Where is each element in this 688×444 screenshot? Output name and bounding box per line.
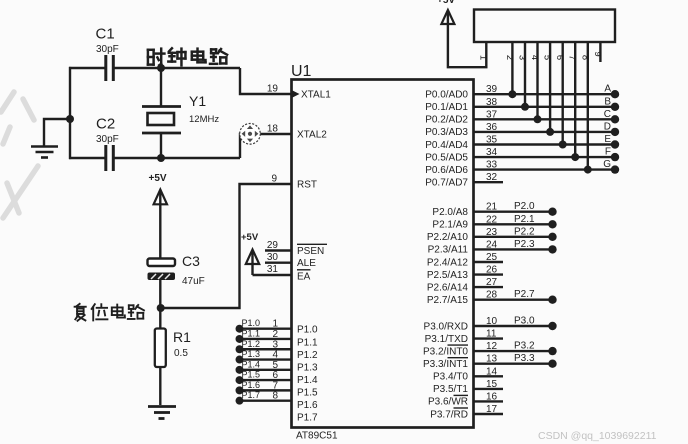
junction: RP1 pin 3 / P0.1 [521,103,529,111]
svg-text:37: 37 [486,109,498,120]
svg-text:34: 34 [486,147,498,158]
svg-text:F: F [605,147,611,158]
pin 27 stub [474,277,503,288]
node P2.1 [514,214,557,229]
junction: reset node [157,304,165,312]
junction: RP1 pin 6 / P0.4 [559,141,567,149]
svg-text:12MHz: 12MHz [189,114,219,125]
svg-text:9: 9 [271,174,277,185]
svg-text:P1.1: P1.1 [242,328,261,338]
svg-text:8: 8 [272,391,278,402]
pin 17 stub [474,404,503,415]
node C [604,109,619,124]
junction: RP1 pin 2 / P0.0 [508,90,516,98]
svg-text:22: 22 [486,214,498,225]
svg-text:13: 13 [486,354,498,365]
node G [603,159,619,174]
svg-text:17: 17 [486,404,498,415]
pin 39 P0.0/AD0 wire to node A [474,84,616,95]
svg-text:P3.0: P3.0 [514,316,535,327]
svg-text:32: 32 [486,172,498,183]
RP1 pin 6 column [554,42,565,145]
svg-text:P1.7: P1.7 [297,413,318,424]
resistor R1 [155,308,166,405]
wire: top clock rail [69,67,240,69]
pin 32 P0.7/AD7 stub [474,172,503,183]
RP1 pin 7 column [567,42,578,157]
pin 36 P0.3/AD3 wire to node D [474,122,616,133]
svg-text:CSDN @qq_1039692211: CSDN @qq_1039692211 [538,430,657,442]
pin stub 30 ALE [265,262,291,264]
label 时钟电路 (clock circuit title) [148,48,227,65]
svg-text:C3: C3 [182,253,200,269]
RP1 pin 8 column [579,42,590,170]
svg-text:19: 19 [267,84,279,95]
junction: bottom rail / Y1 [157,154,165,162]
pin 3 P1.2 external wire [236,339,292,354]
svg-text:P1.5: P1.5 [297,388,318,399]
pin 16 stub [474,391,503,402]
svg-text:P1.6: P1.6 [297,400,318,411]
junction: RP1 pin 7 / P0.5 [571,153,579,161]
wire: +5V to EA pin 31 [253,274,292,276]
svg-text:P1.2: P1.2 [297,350,318,361]
node P2.2 [514,226,557,241]
pin 28 wire to net P2.7 [474,290,553,301]
svg-text:5: 5 [542,55,553,60]
node P2.0 [514,201,557,216]
svg-text:P3.2/INT0: P3.2/INT0 [423,346,468,357]
wire: XTAL1 branch [240,68,291,94]
svg-text:P2.2/A10: P2.2/A10 [427,232,469,243]
svg-text:ALE: ALE [297,258,316,269]
capacitor C3 (electrolytic) [148,259,176,309]
svg-text:P3.5/T1: P3.5/T1 [433,384,468,395]
pin 4 P1.3 external wire [236,349,292,364]
node A [604,84,619,99]
RP1 pin 4 column [529,42,540,119]
pin 33 P0.6/AD6 wire to node G [474,160,616,171]
pin 10 wire to net P3.0 [474,316,553,327]
svg-text:11: 11 [486,329,497,340]
svg-text:RST: RST [297,179,317,190]
junction: RP1 pin 4 / P0.2 [534,115,542,123]
pin 22 wire to net P2.1 [474,214,553,225]
svg-text:8: 8 [579,55,590,60]
pin 25 stub [474,252,503,263]
node P2.3 [514,239,557,254]
svg-text:4: 4 [529,55,540,60]
junction: RP1 pin 8 / P0.6 [584,166,592,174]
node F [605,147,619,162]
RP1 pin 1 lead to +5V [448,12,486,67]
svg-text:P2.0: P2.0 [514,201,535,212]
svg-text:P2.6/A14: P2.6/A14 [427,282,469,293]
svg-text:A: A [604,84,611,95]
node B [604,96,619,111]
pin label P3.2/INT0 [423,345,468,357]
svg-text:P3.4/T0: P3.4/T0 [433,372,468,383]
capacitor C1 [106,55,114,81]
pin 34 P0.5/AD5 wire to node F [474,147,616,158]
junction: left rail / ground [66,115,74,123]
svg-text:P2.7: P2.7 [514,289,535,300]
pin 13 wire to net P3.3 [474,354,553,365]
svg-text:23: 23 [486,227,498,238]
wire: reset node to RST pin 9 [161,184,291,308]
svg-text:26: 26 [486,265,498,276]
pin label EA (overline) [297,270,311,283]
svg-text:+5V: +5V [437,0,455,6]
node P2.7 [514,289,557,304]
svg-text:P0.0/AD0: P0.0/AD0 [425,90,468,101]
pin label P3.7/RD [430,408,468,420]
pin 7 P1.6 external wire [236,380,292,395]
svg-text:24: 24 [486,239,498,250]
svg-text:9: 9 [592,51,603,56]
svg-text:EA: EA [297,272,311,283]
pin 2 P1.1 external wire [236,328,292,343]
svg-text:P3.0/RXD: P3.0/RXD [424,321,468,332]
svg-text:29: 29 [267,240,279,251]
watermark: faint diagonal strokes [1,92,38,218]
node P3.3 [514,353,557,368]
pin 37 P0.2/AD2 wire to node C [474,109,616,120]
node P3.2 [514,341,557,356]
pin 12 wire to net P3.2 [474,341,553,352]
svg-text:25: 25 [486,252,498,263]
svg-text:P1.3: P1.3 [297,362,318,373]
svg-text:30: 30 [267,252,279,263]
IC U1 AT89C51 body [292,80,474,428]
svg-text:C: C [604,109,611,120]
pin 15 stub [474,379,503,390]
svg-text:P0.4/AD4: P0.4/AD4 [425,140,468,151]
svg-text:27: 27 [486,277,498,288]
svg-text:P0.2/AD2: P0.2/AD2 [425,115,468,126]
svg-text:P2.4/A12: P2.4/A12 [427,257,469,268]
resistor network RP1 body [474,10,615,43]
svg-text:1: 1 [478,55,489,60]
svg-text:10: 10 [486,316,498,327]
pin 26 stub [474,265,503,276]
RP1 pin 3 column [517,42,528,107]
svg-text:P1.7: P1.7 [242,390,261,400]
svg-text:14: 14 [486,366,498,377]
svg-text:P1.0: P1.0 [297,325,318,336]
wire: ground branch (clock) [44,119,70,146]
pin 38 P0.1/AD1 wire to node B [474,97,616,108]
capacitor C2 [106,145,114,171]
svg-text:Y1: Y1 [189,93,206,109]
svg-text:P2.7/A15: P2.7/A15 [427,295,469,306]
svg-text:P1.1: P1.1 [297,337,318,348]
svg-text:0.5: 0.5 [174,348,188,359]
svg-text:XTAL2: XTAL2 [297,129,327,140]
svg-text:PSEN: PSEN [297,246,324,257]
pin label PSEN (overline) [297,244,327,257]
svg-text:7: 7 [567,55,578,60]
pin 24 wire to net P2.3 [474,239,553,250]
svg-text:39: 39 [486,84,498,95]
svg-text:P1.0: P1.0 [242,318,261,328]
pin 35 P0.4/AD4 wire to node E [474,135,616,146]
svg-text:P2.1: P2.1 [514,214,535,225]
pin 23 wire to net P2.2 [474,227,553,238]
svg-text:P1.2: P1.2 [242,339,261,349]
svg-text:P0.5/AD5: P0.5/AD5 [425,152,468,163]
svg-text:E: E [604,134,611,145]
svg-text:18: 18 [267,124,279,135]
svg-text:P3.3: P3.3 [514,353,535,364]
svg-text:P1.5: P1.5 [242,370,261,380]
svg-text:C2: C2 [96,116,115,133]
svg-text:30pF: 30pF [96,44,119,55]
svg-text:P3.7/RD: P3.7/RD [430,409,468,420]
svg-text:P1.4: P1.4 [297,375,318,386]
label 复位电路 (reset circuit title) [75,304,144,321]
svg-text:R1: R1 [173,329,191,345]
svg-text:12: 12 [486,341,498,352]
RP1 pin 2 column [504,42,515,94]
RP1 pin 5 column [542,42,553,132]
node P3.0 [514,316,557,331]
svg-text:33: 33 [486,160,498,171]
power arrow +5V (RP1) [441,10,454,24]
svg-text:16: 16 [486,391,498,402]
svg-text:AT89C51: AT89C51 [296,431,338,442]
svg-text:P2.1/A9: P2.1/A9 [432,220,468,231]
svg-text:P3.2: P3.2 [514,341,535,352]
svg-text:2: 2 [504,55,515,60]
wire: left clock rail [69,67,71,159]
svg-text:P0.3/AD3: P0.3/AD3 [425,127,468,138]
wire: XTAL2 branch [240,134,291,158]
pin stub 29 PSEN [265,249,291,251]
pin 8 P1.7 external wire [236,390,292,405]
svg-text:P2.0/A8: P2.0/A8 [432,207,468,218]
node D [604,121,619,136]
svg-text:6: 6 [554,55,565,60]
junction: RP1 pin 5 / P0.3 [546,128,554,136]
power arrow +5V (EA) [246,250,259,276]
wire: bottom clock rail [69,157,240,159]
svg-text:P1.4: P1.4 [242,359,261,369]
svg-text:47uF: 47uF [182,276,205,287]
svg-text:G: G [603,159,611,170]
pin 5 P1.4 external wire [236,359,292,374]
pin 6 P1.5 external wire [236,370,292,385]
svg-text:P0.1/AD1: P0.1/AD1 [425,102,468,113]
svg-text:38: 38 [486,97,498,108]
svg-text:B: B [604,96,611,107]
svg-text:15: 15 [486,379,498,390]
svg-text:P0.7/AD7: P0.7/AD7 [425,178,468,189]
svg-text:P3.6/WR: P3.6/WR [428,397,468,408]
svg-text:21: 21 [486,202,498,213]
junction: top rail / Y1 [157,64,165,72]
svg-text:28: 28 [486,290,498,301]
svg-text:P2.3/A11: P2.3/A11 [428,245,469,256]
pin 1 P1.0 external wire [236,318,292,333]
svg-text:U1: U1 [291,63,312,80]
svg-text:P0.6/AD6: P0.6/AD6 [425,165,468,176]
svg-text:31: 31 [267,264,279,275]
pin 21 wire to net P2.0 [474,202,553,213]
move cursor icon [240,124,261,145]
pin 11 stub [474,329,503,340]
svg-text:P3.1/TXD: P3.1/TXD [425,334,468,345]
svg-text:C1: C1 [96,26,115,43]
pin label P3.6/WR [428,395,468,407]
svg-text:D: D [604,121,611,132]
svg-text:30pF: 30pF [96,134,119,145]
pin label P3.3/INT1 [423,358,468,370]
power arrow +5V (reset) [154,190,167,259]
svg-text:P3.3/INT1: P3.3/INT1 [423,359,468,370]
svg-text:+5V: +5V [149,173,167,184]
svg-text:P2.2: P2.2 [514,226,535,237]
svg-text:P2.5/A13: P2.5/A13 [427,270,469,281]
svg-text:P2.3: P2.3 [514,239,535,250]
svg-text:35: 35 [486,135,498,146]
ground (clock circuit) [31,147,58,158]
pin label XTAL1 (input arrow) [293,89,332,100]
svg-text:36: 36 [486,122,498,133]
svg-text:P1.6: P1.6 [242,380,261,390]
node E [604,134,619,149]
svg-text:3: 3 [517,55,528,60]
svg-text:P1.3: P1.3 [242,349,261,359]
pin 14 stub [474,366,503,377]
svg-text:+5V: +5V [241,232,259,243]
crystal Y1 [142,68,181,158]
RP1 pin 9 stub [592,42,603,62]
svg-text:XTAL1: XTAL1 [301,89,331,100]
ground (reset circuit) [148,407,176,419]
